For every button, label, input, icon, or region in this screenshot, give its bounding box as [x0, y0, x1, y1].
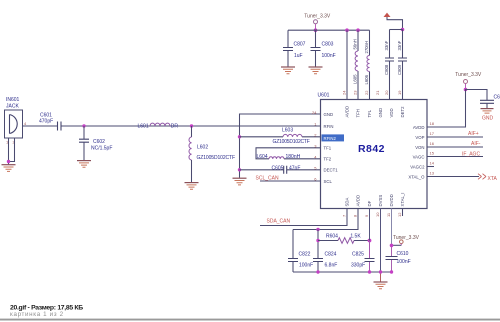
wire SCL: [260, 180, 321, 182]
svg-text:33nF: 33nF: [397, 40, 402, 50]
pin names left: [322, 112, 345, 184]
svg-text:DVSS: DVSS: [378, 195, 383, 207]
svg-text:56nH: 56nH: [353, 39, 358, 49]
svg-text:14: 14: [430, 160, 435, 165]
wire pin12 stub: [402, 209, 404, 217]
wire VON: [427, 146, 483, 148]
svg-text:Tuner_3.3V: Tuner_3.3V: [393, 235, 420, 241]
ground (bus): [233, 178, 247, 185]
svg-text:100nF: 100nF: [299, 262, 313, 268]
wire RF input: [23, 125, 58, 127]
svg-text:330pF: 330pF: [351, 262, 365, 268]
wire jack pins to ground: [9, 138, 15, 164]
svg-text:RFIN2: RFIN2: [324, 136, 337, 141]
svg-text:21: 21: [375, 90, 380, 95]
wire AVDD pin23: [346, 30, 348, 99]
capacitor C824: [313, 252, 337, 269]
svg-text:11: 11: [386, 212, 391, 217]
svg-text:24: 24: [342, 90, 347, 95]
svg-text:DVDD: DVDD: [389, 194, 394, 206]
svg-text:TF1: TF1: [324, 146, 332, 151]
svg-text:24: 24: [312, 110, 317, 115]
svg-text:C822: C822: [299, 252, 311, 258]
ground (C803): [309, 67, 323, 74]
svg-text:13: 13: [430, 170, 435, 175]
power Tuner_3.3V (right): [455, 72, 482, 89]
svg-text:15: 15: [430, 150, 435, 155]
ground (bottom): [374, 282, 388, 289]
svg-text:L604: L604: [257, 154, 268, 160]
capacitor C601: [39, 113, 61, 131]
svg-text:R842: R842: [358, 143, 385, 155]
svg-text:XTA: XTA: [488, 176, 498, 182]
net XTAL off-page: [478, 174, 486, 180]
svg-text:картинка 1 из 2: картинка 1 из 2: [10, 311, 64, 318]
svg-text:C808: C808: [384, 64, 389, 75]
svg-text:33nF: 33nF: [384, 40, 389, 50]
capacitor C602: [79, 126, 112, 160]
svg-text:C809: C809: [397, 64, 402, 75]
svg-text:JACK: JACK: [6, 104, 19, 110]
svg-text:TFL: TFL: [367, 109, 372, 117]
wire 3.3V rail: [288, 29, 370, 31]
svg-text:SCL: SCL: [324, 179, 333, 184]
svg-text:100nF: 100nF: [397, 259, 411, 265]
pin names bottom: [345, 192, 406, 206]
svg-text:L603: L603: [282, 127, 293, 133]
svg-text:GND: GND: [378, 108, 383, 118]
svg-text:6.8nF: 6.8nF: [325, 262, 338, 268]
wire pin9: [369, 209, 371, 241]
wire VOP: [427, 136, 483, 138]
ground (L602): [185, 183, 199, 190]
svg-text:DR: DR: [171, 124, 179, 130]
inductor L606: [364, 30, 369, 99]
inductor L601: [138, 123, 179, 130]
node rail L605: [356, 28, 360, 32]
svg-text:19: 19: [397, 90, 402, 95]
svg-text:Tuner_3.3V: Tuner_3.3V: [455, 72, 482, 78]
svg-text:12: 12: [397, 212, 402, 217]
capacitor C610: [386, 251, 411, 265]
node power AVDD18: [464, 88, 468, 92]
svg-text:470pF: 470pF: [39, 118, 53, 124]
svg-text:16: 16: [430, 141, 435, 146]
svg-text:SCL_CAN: SCL_CAN: [256, 175, 279, 181]
svg-text:RFIN: RFIN: [324, 124, 334, 129]
svg-text:9: 9: [364, 214, 369, 217]
node C610 rail: [390, 270, 393, 273]
svg-text:GZ1005D102CTF: GZ1005D102CTF: [273, 139, 310, 145]
capacitor C807: [283, 30, 306, 66]
svg-text:Tuner_3.3V: Tuner_3.3V: [304, 13, 331, 19]
svg-text:NC/1.5pF: NC/1.5pF: [91, 146, 112, 152]
svg-text:C807: C807: [294, 41, 306, 47]
ground (C807): [281, 67, 295, 74]
status bar: [0, 304, 500, 320]
svg-text:TF2: TF2: [324, 157, 332, 162]
wire TF1 loop: [256, 148, 321, 159]
svg-text:20: 20: [384, 90, 389, 95]
wire VAGC: [427, 156, 483, 158]
pin names right: [408, 125, 425, 180]
svg-text:TFH: TFH: [356, 109, 361, 117]
node C825 rail: [368, 270, 371, 273]
capacitor C6 (top right): [480, 94, 500, 108]
wire branch to C824/R604: [317, 230, 319, 273]
svg-text:10: 10: [375, 212, 380, 217]
pin numbers left: [312, 110, 317, 182]
wire RFIN2 row: [240, 136, 321, 138]
wire DECT1 row: [240, 169, 321, 171]
capacitor C825: [351, 252, 375, 269]
ground (C602): [77, 161, 91, 168]
node R604 right: [368, 239, 372, 243]
svg-text:1uF: 1uF: [294, 53, 303, 59]
svg-text:C605: C605: [272, 165, 284, 171]
svg-text:AVDD: AVDD: [413, 125, 425, 130]
svg-text:180nH: 180nH: [286, 154, 301, 160]
svg-text:GZ1005D102CTF: GZ1005D102CTF: [197, 155, 235, 161]
svg-text:IN601: IN601: [6, 97, 20, 103]
svg-text:17: 17: [430, 131, 435, 136]
svg-text:DET2: DET2: [400, 106, 405, 118]
node pin8 branch: [316, 228, 319, 231]
svg-text:4: 4: [24, 121, 27, 126]
svg-text:R604: R604: [326, 233, 338, 239]
wire AVDD pin8: [293, 209, 358, 230]
jack IN601: [5, 97, 28, 144]
wire XTAL_O: [427, 176, 479, 178]
svg-text:47nF: 47nF: [289, 165, 300, 171]
pin names top: [345, 106, 406, 118]
svg-text:1.5K: 1.5K: [350, 233, 361, 239]
node RF / L602: [190, 124, 193, 127]
svg-text:XTAL_O: XTAL_O: [408, 174, 425, 179]
op-amp U601 R842: [318, 92, 428, 208]
svg-text:SDA: SDA: [345, 198, 350, 207]
power arrow: [384, 13, 403, 30]
capacitor C803: [311, 30, 336, 66]
svg-text:SDA_CAN: SDA_CAN: [267, 219, 291, 225]
svg-text:C610: C610: [397, 251, 409, 257]
junction jack gnd: [7, 160, 10, 163]
svg-text:L601: L601: [138, 124, 149, 130]
svg-text:7: 7: [342, 214, 347, 217]
svg-text:GND: GND: [482, 115, 494, 121]
svg-text:L602: L602: [197, 145, 208, 151]
resistor R604: [318, 233, 370, 243]
svg-text:DECT1: DECT1: [324, 168, 339, 173]
svg-text:L605: L605: [353, 74, 358, 84]
pin numbers bottom: [342, 212, 403, 217]
svg-text:VON: VON: [415, 145, 424, 150]
node DVSS rail: [379, 270, 382, 273]
svg-text:IF_AGC: IF_AGC: [462, 152, 480, 158]
svg-text:AVDD: AVDD: [356, 195, 361, 207]
node rail / power: [314, 28, 318, 32]
inductor L605: [353, 30, 358, 99]
svg-text:AVDD: AVDD: [345, 106, 350, 118]
inductor L603: [273, 127, 310, 144]
svg-text:GND: GND: [324, 112, 334, 117]
svg-text:L606: L606: [364, 74, 369, 84]
wire DVSS pin10: [380, 209, 382, 273]
svg-text:VAGC2: VAGC2: [410, 164, 425, 169]
wire DVDD pin11: [391, 209, 393, 246]
node rail pin23: [345, 28, 349, 32]
node C824 rail: [316, 270, 319, 273]
inductor L602: [189, 126, 235, 182]
power Tuner_3.3V (bottom): [390, 235, 420, 247]
ground (jack): [2, 165, 16, 172]
svg-text:23: 23: [353, 90, 358, 95]
svg-text:C824: C824: [325, 252, 337, 258]
capacitor C809: [397, 30, 407, 100]
svg-text:U601: U601: [318, 92, 330, 98]
svg-text:C803: C803: [322, 41, 334, 47]
wire bottom rail: [293, 271, 392, 273]
node bus RFIN2: [238, 135, 241, 138]
svg-text:22: 22: [364, 90, 369, 95]
wire AVDD pin18: [427, 90, 487, 128]
capacitor C808: [384, 30, 394, 100]
node arrow rail: [401, 28, 405, 32]
svg-text:VAGC: VAGC: [413, 154, 425, 159]
svg-text:DF: DF: [367, 200, 372, 206]
capacitor C605: [272, 165, 301, 174]
svg-text:VOP: VOP: [415, 135, 424, 140]
inductor L604: [257, 154, 301, 160]
svg-text:C6: C6: [494, 94, 500, 100]
svg-text:AIF+: AIF+: [468, 131, 479, 137]
ground GND (top right): [481, 109, 494, 122]
svg-text:100nF: 100nF: [322, 53, 336, 59]
node R604 left: [316, 239, 319, 242]
wire GND pin 25: [240, 114, 321, 178]
wire SDA: [260, 209, 347, 226]
power Tuner_3.3V (top): [304, 13, 331, 30]
capacitor C822: [288, 230, 313, 273]
svg-text:AIF-: AIF-: [471, 141, 481, 147]
svg-text:VDD: VDD: [389, 108, 394, 117]
svg-text:270nH: 270nH: [364, 41, 369, 54]
svg-text:8: 8: [353, 214, 358, 217]
node RF / C602: [82, 124, 85, 127]
svg-text:XTAL_I: XTAL_I: [400, 192, 405, 206]
svg-text:18: 18: [430, 121, 435, 126]
node bus DECT1: [238, 168, 241, 171]
pin numbers right: [430, 121, 435, 175]
wire VAGC2 stub: [427, 166, 434, 168]
svg-text:C602: C602: [93, 139, 105, 145]
svg-text:C825: C825: [352, 252, 364, 258]
wire arrow rail: [390, 29, 403, 31]
wire RF after C601: [62, 125, 321, 127]
pin numbers top: [342, 90, 403, 95]
